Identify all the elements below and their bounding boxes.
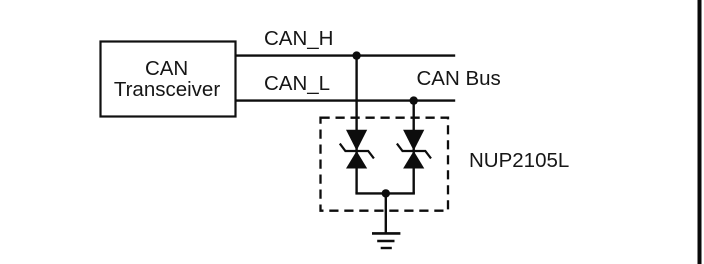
wire bottom rail joining D1 and D2	[355, 192, 415, 194]
svg-text:NUP2105L: NUP2105L	[469, 149, 569, 172]
svg-text:CAN_H: CAN_H	[264, 27, 334, 50]
CAN Transceiver box	[101, 42, 236, 117]
node junction dot on bottom rail	[382, 189, 390, 197]
wire vertical from CAN_L to D2	[413, 101, 415, 194]
ground symbol	[372, 233, 400, 248]
svg-text:CAN Bus: CAN Bus	[417, 67, 501, 90]
node junction dot on CAN_L	[410, 96, 418, 104]
TVS diode D1 (CAN_H side, bidirectional)	[346, 130, 367, 169]
wire ground stem	[385, 193, 387, 233]
wire CAN_L horizontal	[236, 99, 455, 101]
node junction dot on CAN_H	[352, 51, 360, 59]
package outline NUP2105L (dashed)	[321, 118, 449, 211]
wire vertical from CAN_H to D1	[355, 56, 357, 194]
svg-text:Transceiver: Transceiver	[114, 78, 220, 101]
svg-text:CAN: CAN	[145, 57, 188, 80]
svg-text:CAN_L: CAN_L	[264, 72, 330, 95]
wire CAN_H horizontal	[236, 54, 455, 56]
TVS diode D2 (CAN_L side, bidirectional)	[403, 130, 424, 169]
